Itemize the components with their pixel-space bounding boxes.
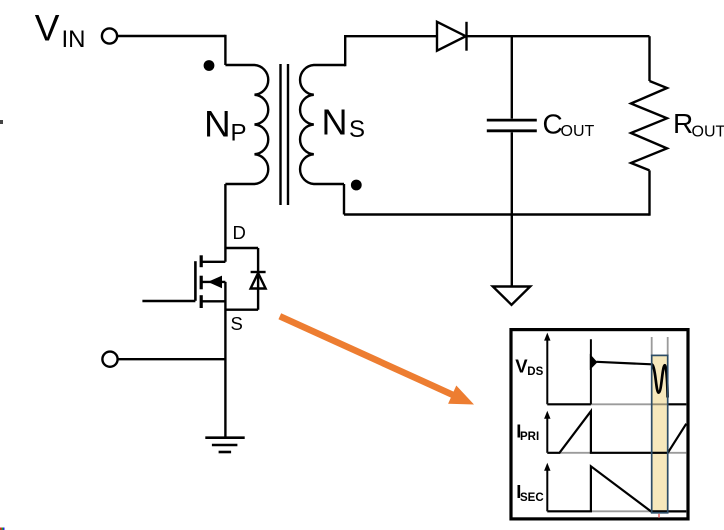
svg-text:R: R [673, 108, 693, 139]
orange callout arrow [280, 316, 474, 404]
wire diode to output rail [467, 35, 650, 37]
channel bar top [200, 255, 203, 267]
ISEC axis [544, 463, 686, 512]
highlight band (multiply) [652, 355, 668, 512]
ground output (triangle) [493, 287, 530, 305]
VDS waveform [547, 339, 686, 404]
body line with arrow [201, 281, 225, 283]
label VDS [515, 356, 543, 378]
node dot primary polarity [204, 60, 215, 71]
label IPRI [516, 420, 539, 443]
wire secondary top to diode [345, 36, 437, 66]
IPRI axis [544, 411, 686, 453]
svg-text:P: P [231, 119, 247, 146]
label COUT [543, 108, 595, 139]
transformer T1 secondary winding NS [300, 65, 345, 184]
node dot secondary polarity [351, 180, 362, 191]
stray corner pixels bottom-left [0, 528, 2, 530]
label NS [322, 102, 366, 144]
body diode branch wires [225, 248, 258, 310]
svg-text:D: D [233, 222, 246, 243]
diode D1 [437, 22, 467, 51]
wire secondary bottom corner [343, 184, 345, 215]
svg-text:V: V [35, 8, 60, 49]
svg-text:SEC: SEC [520, 492, 544, 504]
IPRI waveform [547, 411, 686, 453]
stray mark left edge [0, 120, 3, 124]
transformer T1 core [281, 64, 289, 205]
svg-text:S: S [231, 313, 243, 334]
channel bar bottom [200, 295, 203, 308]
wire COUT branch top [511, 36, 513, 118]
capacitor COUT [487, 120, 537, 131]
svg-text:N: N [322, 102, 348, 143]
wire VIN to primary top [117, 35, 225, 37]
transformer T1 primary winding NP [225, 65, 268, 184]
ISEC waveform [547, 466, 686, 511]
terminal VIN [102, 28, 117, 43]
red tick [658, 514, 660, 518]
svg-text:S: S [349, 116, 365, 143]
label ROUT [673, 108, 724, 140]
svg-text:OUT: OUT [561, 123, 595, 140]
wire primary top vertical [224, 35, 226, 65]
body diode D2 [251, 272, 266, 289]
resistor ROUT [631, 36, 667, 216]
svg-text:N: N [204, 104, 231, 145]
transistor Q1 MOSFET [142, 255, 225, 308]
wire source down to ground [224, 282, 226, 438]
svg-text:DS: DS [527, 366, 543, 378]
ground source (hatched) [205, 438, 244, 452]
wire COUT bottom to ground [511, 132, 513, 286]
channel bar middle [200, 276, 203, 290]
svg-text:PRI: PRI [520, 431, 539, 443]
label NP [204, 104, 247, 147]
VDS axis [544, 333, 686, 405]
wire bottom left terminal to source [118, 358, 226, 360]
terminal bottom left [102, 352, 117, 367]
wire bottom output rail [344, 213, 650, 215]
gate line [194, 261, 197, 301]
gray vertical markers above band [652, 337, 668, 356]
label VIN [35, 8, 86, 53]
svg-text:IN: IN [62, 26, 86, 53]
highlight band border [652, 355, 668, 512]
drain contact [201, 261, 225, 263]
inset waveform box [511, 330, 688, 519]
svg-text:OUT: OUT [692, 123, 724, 140]
wire primary bottom to MOSFET drain [224, 184, 226, 262]
source contact [201, 300, 225, 302]
gate lead [142, 300, 195, 302]
label ISEC [516, 481, 543, 504]
